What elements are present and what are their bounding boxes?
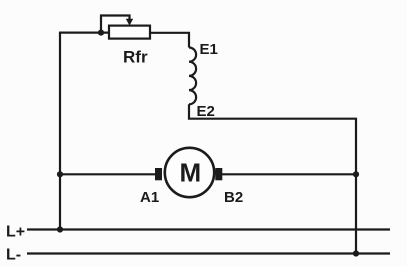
- wiper arrowhead onto rheostat: [126, 19, 133, 26]
- node junction dot left vertical / armature line: [57, 171, 63, 177]
- wire left vertical from top corner down to L+ rail: [59, 32, 61, 230]
- motor brush terminal A1 (left black block): [155, 168, 162, 180]
- svg-text:B2: B2: [224, 189, 243, 206]
- wire from coil bottom right then down right side: [189, 104, 356, 253]
- svg-text:Rfr: Rfr: [123, 48, 148, 67]
- svg-text:E1: E1: [200, 41, 218, 58]
- motor M body circle: [165, 148, 214, 197]
- wire from rheostat right to coil top: [150, 33, 189, 48]
- wire L- supply rail: [27, 252, 390, 254]
- node junction dot right vertical / armature line: [353, 171, 359, 177]
- wire wiper loop over rheostat: [101, 16, 130, 33]
- resistor Rfr (rheostat body): [109, 26, 150, 39]
- inductor field winding E1-E2: [189, 48, 196, 105]
- wire L+ supply rail: [27, 228, 390, 230]
- node junction dot right vertical / L- rail: [353, 250, 359, 256]
- wire armature line left: from left rail branch to motor terminal A1: [60, 173, 155, 175]
- svg-text:E2: E2: [197, 103, 215, 120]
- node junction dot at rheostat left: [98, 29, 104, 35]
- wire top horizontal from left corner to rheostat: [59, 31, 109, 33]
- motor brush terminal B2 (right black block): [215, 168, 222, 180]
- svg-text:M: M: [180, 158, 202, 188]
- svg-text:L+: L+: [6, 224, 25, 241]
- node junction dot left vertical / L+ rail: [57, 226, 63, 232]
- wire armature line right: from motor terminal B2 to right vertical: [222, 173, 356, 175]
- svg-text:L-: L-: [6, 247, 21, 264]
- svg-text:A1: A1: [140, 189, 159, 206]
